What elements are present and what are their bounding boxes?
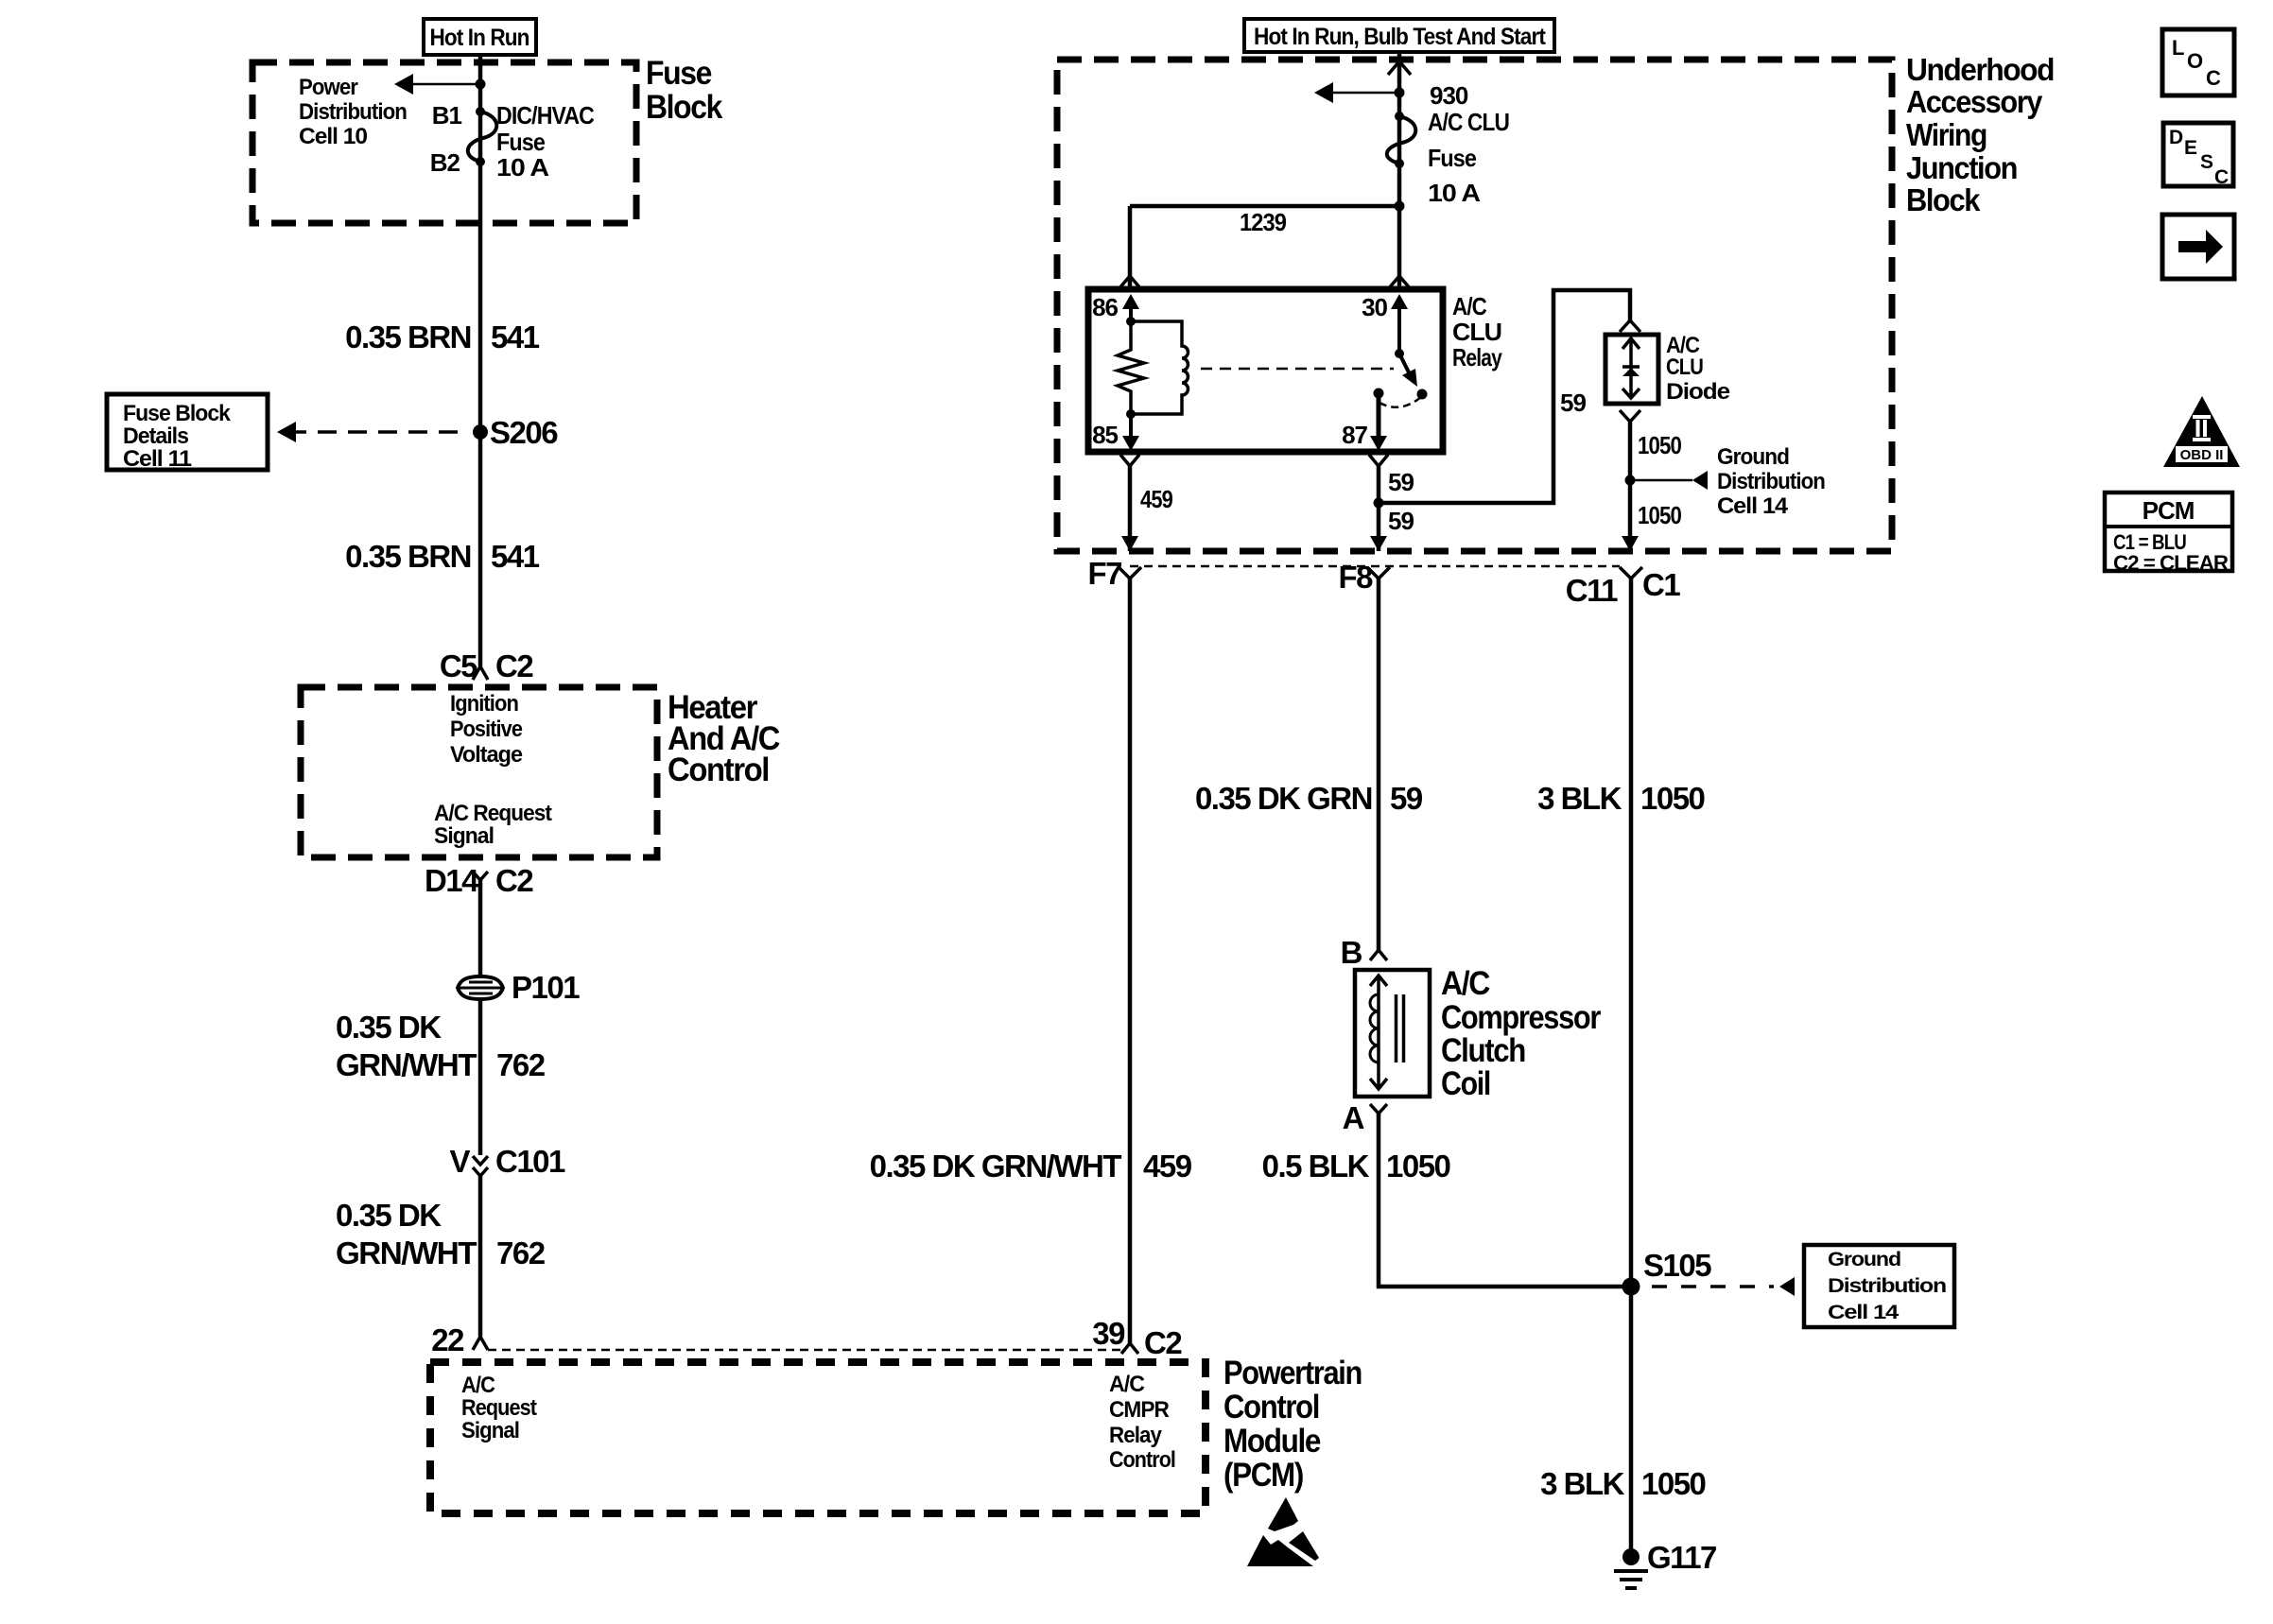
svg-text:Block: Block — [1906, 182, 1981, 217]
svg-text:Control: Control — [1109, 1447, 1175, 1473]
svg-text:D: D — [2169, 127, 2183, 148]
svg-text:O: O — [2187, 49, 2203, 73]
svg-text:A/C: A/C — [1452, 292, 1487, 320]
svg-text:Junction: Junction — [1906, 150, 2017, 185]
svg-text:10 A: 10 A — [1428, 179, 1481, 207]
svg-text:GRN/WHT: GRN/WHT — [336, 1047, 477, 1082]
svg-text:541: 541 — [491, 539, 540, 574]
svg-text:87: 87 — [1342, 421, 1367, 449]
svg-text:Clutch: Clutch — [1441, 1032, 1525, 1069]
svg-text:1050: 1050 — [1641, 1466, 1706, 1501]
svg-text:Signal: Signal — [461, 1418, 519, 1443]
svg-text:Cell 14: Cell 14 — [1828, 1302, 1900, 1323]
svg-text:3 BLK: 3 BLK — [1540, 1466, 1625, 1501]
svg-text:1050: 1050 — [1638, 501, 1681, 529]
svg-text:Hot In Run, Bulb Test And Star: Hot In Run, Bulb Test And Start — [1254, 24, 1547, 50]
svg-text:S: S — [2200, 151, 2213, 173]
svg-text:PCM: PCM — [2143, 496, 2195, 525]
svg-text:A/C: A/C — [1441, 965, 1490, 1002]
svg-text:Powertrain: Powertrain — [1223, 1355, 1362, 1391]
svg-text:Power: Power — [299, 75, 358, 100]
svg-text:85: 85 — [1092, 421, 1118, 449]
svg-text:C11: C11 — [1566, 573, 1618, 608]
svg-text:Ground: Ground — [1828, 1249, 1900, 1270]
svg-text:762: 762 — [496, 1235, 546, 1270]
svg-text:3 BLK: 3 BLK — [1537, 781, 1622, 816]
svg-text:S206: S206 — [490, 415, 558, 450]
svg-text:459: 459 — [1140, 485, 1172, 513]
svg-text:Module: Module — [1223, 1423, 1321, 1460]
svg-text:Compressor: Compressor — [1441, 999, 1602, 1036]
svg-text:C2: C2 — [1144, 1325, 1182, 1360]
svg-text:Cell 14: Cell 14 — [1717, 493, 1789, 519]
svg-text:Block: Block — [646, 89, 723, 126]
svg-text:Relay: Relay — [1109, 1423, 1163, 1448]
svg-text:Fuse: Fuse — [1428, 144, 1476, 172]
svg-text:Cell 10: Cell 10 — [299, 124, 368, 149]
svg-text:S105: S105 — [1643, 1248, 1711, 1283]
svg-text:0.35 DK GRN/WHT: 0.35 DK GRN/WHT — [870, 1149, 1122, 1183]
svg-text:F8: F8 — [1338, 560, 1373, 595]
svg-text:59: 59 — [1388, 468, 1414, 496]
svg-text:C2: C2 — [495, 863, 533, 898]
svg-text:Ignition: Ignition — [450, 691, 518, 717]
svg-text:Signal: Signal — [434, 823, 494, 849]
svg-text:Distribution: Distribution — [1717, 469, 1825, 494]
svg-text:B2: B2 — [430, 148, 460, 177]
svg-text:C1: C1 — [1642, 567, 1680, 602]
svg-text:Underhood: Underhood — [1906, 52, 2054, 87]
svg-text:Control: Control — [1223, 1389, 1319, 1425]
svg-text:CLU: CLU — [1666, 354, 1703, 380]
svg-text:541: 541 — [491, 320, 540, 354]
svg-text:Distribution: Distribution — [299, 99, 407, 125]
svg-text:Control: Control — [668, 752, 769, 788]
svg-text:1239: 1239 — [1240, 208, 1286, 236]
svg-text:930: 930 — [1430, 81, 1468, 110]
svg-text:D14: D14 — [425, 863, 479, 898]
svg-text:C2 = CLEAR: C2 = CLEAR — [2113, 551, 2229, 575]
svg-text:F7: F7 — [1087, 556, 1121, 591]
svg-text:Coil: Coil — [1441, 1065, 1490, 1102]
svg-text:0.5 BLK: 0.5 BLK — [1262, 1149, 1370, 1183]
svg-text:Fuse: Fuse — [646, 55, 712, 92]
svg-text:30: 30 — [1362, 293, 1387, 321]
svg-text:0.35 DK GRN: 0.35 DK GRN — [1195, 781, 1372, 816]
svg-text:Relay: Relay — [1452, 343, 1502, 371]
svg-text:C: C — [2206, 66, 2221, 90]
svg-text:C: C — [2214, 166, 2229, 188]
svg-text:762: 762 — [496, 1047, 546, 1082]
svg-text:C2: C2 — [495, 648, 533, 683]
svg-text:459: 459 — [1143, 1149, 1192, 1183]
svg-text:G117: G117 — [1647, 1540, 1716, 1575]
svg-text:B: B — [1341, 935, 1362, 970]
svg-text:1050: 1050 — [1640, 781, 1705, 816]
svg-text:Diode: Diode — [1666, 379, 1730, 405]
svg-text:A: A — [1343, 1100, 1364, 1135]
svg-text:E: E — [2184, 137, 2197, 159]
svg-text:86: 86 — [1092, 293, 1118, 321]
svg-text:22: 22 — [431, 1322, 464, 1357]
svg-text:59: 59 — [1388, 507, 1414, 535]
svg-text:Cell 11: Cell 11 — [123, 446, 192, 472]
svg-text:39: 39 — [1092, 1316, 1125, 1351]
svg-text:Positive: Positive — [450, 717, 523, 742]
svg-text:Wiring: Wiring — [1906, 117, 1987, 152]
svg-text:L: L — [2172, 36, 2184, 60]
svg-text:Hot In Run: Hot In Run — [430, 25, 529, 51]
svg-text:1050: 1050 — [1638, 431, 1681, 459]
svg-text:0.35 BRN: 0.35 BRN — [345, 539, 471, 574]
svg-text:A/C Request: A/C Request — [434, 801, 552, 826]
svg-text:GRN/WHT: GRN/WHT — [336, 1235, 477, 1270]
svg-text:DIC/HVAC: DIC/HVAC — [496, 101, 595, 130]
svg-text:C101: C101 — [495, 1144, 565, 1179]
svg-text:59: 59 — [1560, 389, 1586, 417]
svg-text:Request: Request — [461, 1395, 537, 1421]
svg-text:CMPR: CMPR — [1109, 1397, 1170, 1423]
svg-text:59: 59 — [1390, 781, 1423, 816]
svg-text:Distribution: Distribution — [1828, 1275, 1946, 1297]
svg-text:B1: B1 — [432, 101, 462, 130]
svg-text:Fuse: Fuse — [496, 128, 545, 156]
svg-text:0.35 DK: 0.35 DK — [336, 1010, 442, 1045]
svg-text:Details: Details — [123, 423, 189, 449]
svg-text:P101: P101 — [512, 970, 580, 1005]
svg-text:1050: 1050 — [1386, 1149, 1450, 1183]
svg-text:CLU: CLU — [1452, 318, 1501, 346]
svg-text:Voltage: Voltage — [450, 742, 523, 768]
svg-text:0.35 DK: 0.35 DK — [336, 1198, 442, 1233]
svg-text:0.35 BRN: 0.35 BRN — [345, 320, 471, 354]
svg-text:Accessory: Accessory — [1906, 84, 2043, 119]
svg-text:A/C: A/C — [461, 1373, 495, 1398]
svg-text:V: V — [449, 1144, 470, 1179]
svg-text:10 A: 10 A — [496, 153, 549, 181]
svg-text:Fuse Block: Fuse Block — [123, 401, 232, 426]
svg-text:OBD II: OBD II — [2180, 447, 2224, 463]
svg-text:(PCM): (PCM) — [1223, 1457, 1303, 1494]
svg-text:A/C CLU: A/C CLU — [1428, 108, 1509, 136]
svg-text:Ground: Ground — [1717, 444, 1789, 470]
svg-text:A/C: A/C — [1109, 1372, 1145, 1397]
